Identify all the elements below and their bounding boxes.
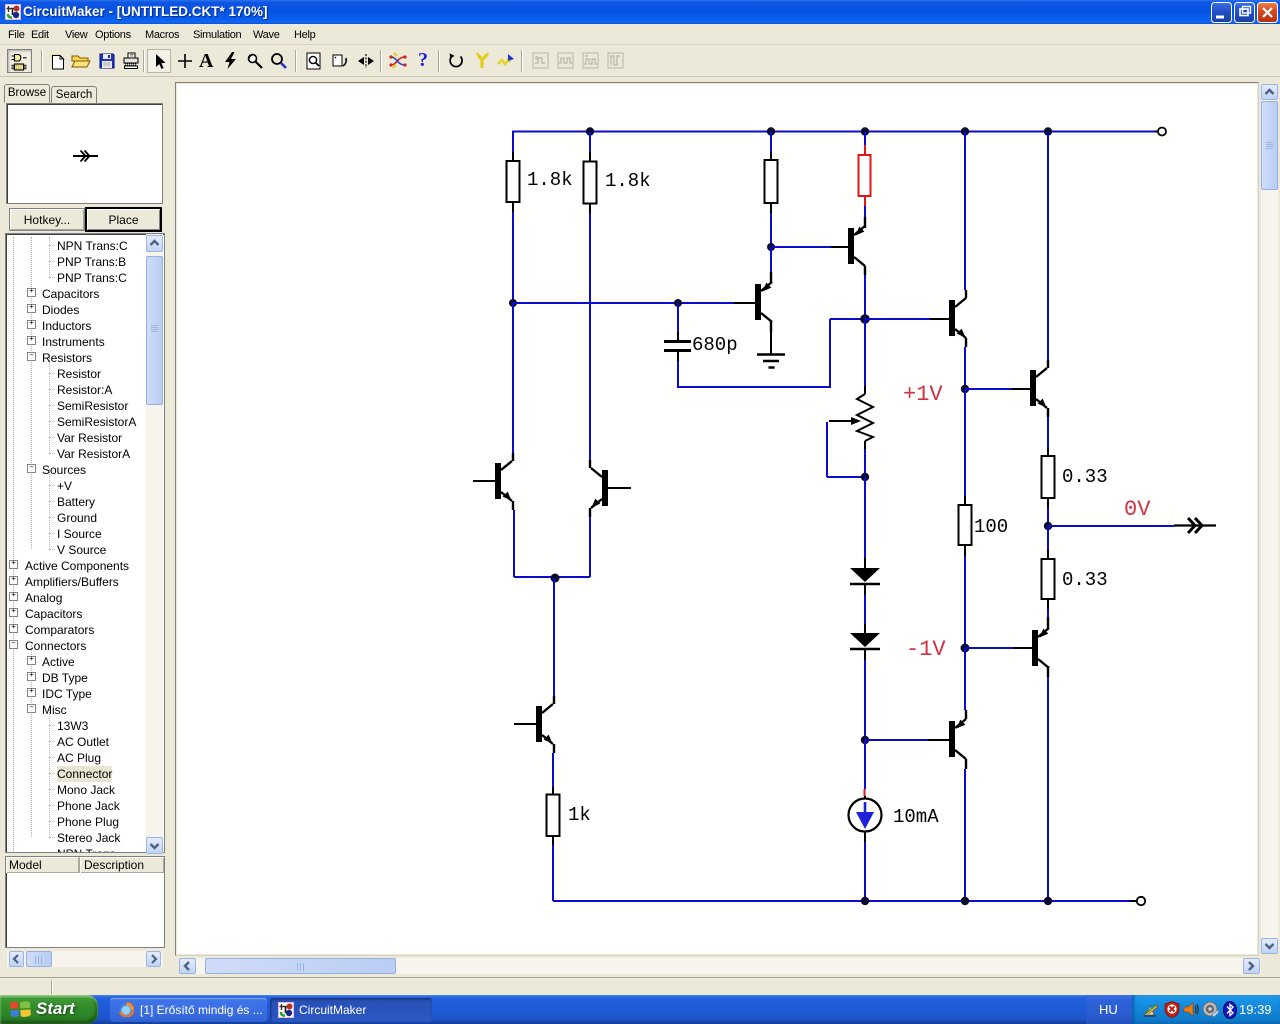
- diode D1: [850, 568, 880, 595]
- node C junction: [860, 314, 870, 324]
- resistor R7 100: [959, 496, 972, 556]
- transistor Q6: [949, 719, 966, 759]
- label I1 10mA: [893, 806, 939, 828]
- wire Q4 emitter to R5: [1047, 408, 1049, 448]
- wire R5 to node F: [1047, 508, 1049, 526]
- wire Q7 emitter to R8: [553, 744, 554, 787]
- transistor Q9: [591, 468, 608, 508]
- resistor R4 selected: [859, 145, 871, 206]
- transistor Q5: [1032, 617, 1049, 668]
- terminal T1 top right: [1155, 128, 1166, 136]
- node bottom rail junctions: [861, 897, 1052, 905]
- wire R6 to Q5 emitter: [1047, 609, 1049, 618]
- node I junction: [861, 736, 869, 744]
- label 0V: [1124, 497, 1151, 522]
- node F junction output: [1044, 522, 1052, 530]
- wire top power rail: [513, 131, 1155, 133]
- wire Q9 collector pin: [589, 460, 591, 468]
- connector J1 output 0V: [1174, 518, 1216, 533]
- wire Q7 base stub: [514, 723, 536, 725]
- wire rail to R2: [589, 132, 591, 153]
- canvas v scrollbar: [1261, 84, 1278, 954]
- wire rail to R1: [512, 131, 514, 153]
- label R5 0.33: [1062, 466, 1108, 488]
- wire Q5 collector down: [1047, 666, 1049, 901]
- wire node G to Q5 base: [965, 647, 1032, 649]
- wire Q1 emitter to node B: [770, 247, 772, 283]
- svg-text:0.33: 0.33: [1062, 466, 1108, 488]
- transistor Q2: [848, 217, 865, 266]
- wire R4 to Q2 emitter: [864, 206, 866, 219]
- status bar: [0, 977, 1280, 995]
- resistor R6 0.33: [1042, 550, 1055, 609]
- left panel: [0, 0, 176, 1024]
- svg-text:1k: 1k: [568, 804, 591, 826]
- title bar: [0, 0, 1280, 24]
- transistor Q8: [495, 461, 512, 501]
- svg-text:0V: 0V: [1124, 497, 1151, 522]
- canvas: [175, 82, 1259, 956]
- wire node B to Q2 base: [771, 246, 848, 248]
- wire rail to R3: [770, 132, 772, 153]
- wire Q2 collector to node C: [864, 266, 866, 319]
- wire D1 to D2: [864, 595, 866, 633]
- wire D2 to node I: [864, 660, 866, 740]
- label -1V: [906, 637, 946, 662]
- label R2 1.8k: [605, 170, 651, 192]
- wire R2 down to Q9 collector: [589, 213, 591, 460]
- wire R8 to bottom rail: [552, 845, 554, 901]
- wire R7 to node G: [964, 556, 966, 648]
- wire node F to R6: [1047, 526, 1049, 550]
- node A junction: [509, 299, 517, 307]
- svg-text:-1V: -1V: [906, 637, 946, 662]
- node J junction: [551, 574, 560, 583]
- transistor Q1: [755, 282, 772, 322]
- wire Q8 base stub: [473, 480, 495, 482]
- svg-text:680p: 680p: [692, 334, 738, 356]
- wire node E to Q4 base: [965, 388, 1030, 390]
- capacitor C1 680p: [664, 342, 691, 362]
- label R6 0.33: [1062, 569, 1108, 591]
- wire R1 to node A: [512, 212, 514, 303]
- wire Q9 emitter to node J: [555, 508, 590, 577]
- wire rail to Q3 collector: [965, 132, 966, 299]
- transistor Q4: [1030, 368, 1047, 408]
- node G junction -1V: [961, 644, 970, 653]
- wire rail to Q4 collector: [1047, 132, 1049, 369]
- current source I1 10mA: [849, 799, 882, 832]
- resistor R5 0.33: [1042, 448, 1055, 508]
- wire node J to Q7 collector: [553, 578, 555, 704]
- node D junction: [674, 299, 682, 307]
- svg-text:1.8k: 1.8k: [527, 169, 573, 191]
- wire bottom rail: [553, 900, 1130, 902]
- taskbar: [0, 995, 1280, 1024]
- wire Q8 collector pin: [512, 453, 514, 461]
- wire node C to VR1: [864, 319, 866, 394]
- wire node I to I1: [864, 740, 867, 798]
- wire Q8 emitter to node J: [513, 501, 555, 577]
- wire Q6 collector down: [965, 759, 966, 901]
- wire node E to R7: [964, 389, 966, 496]
- wire node C to Q3 base: [865, 318, 949, 320]
- node E junction +1V: [961, 385, 969, 393]
- label C1 680p: [692, 334, 738, 356]
- wire Q6 emitter to node G: [965, 648, 966, 719]
- ground: [757, 355, 785, 368]
- wire C1 to node C feedback: [677, 319, 865, 388]
- potentiometer VR1: [829, 394, 873, 441]
- wire node A down to Q8 collector: [512, 303, 514, 453]
- wire I1 to bottom rail: [864, 832, 866, 902]
- toolbar: [0, 45, 1280, 77]
- node H junction: [861, 473, 869, 481]
- resistor R2 1.8k: [584, 152, 597, 213]
- canvas h scrollbar: [179, 958, 1261, 974]
- resistor R1 1.8k: [507, 152, 520, 212]
- wire VR1 to node H: [864, 441, 866, 477]
- svg-text:1.8k: 1.8k: [605, 170, 651, 192]
- svg-text:100: 100: [974, 516, 1008, 538]
- label R7 100: [974, 516, 1008, 538]
- svg-text:0.33: 0.33: [1062, 569, 1108, 591]
- wire node H to D1: [864, 477, 866, 568]
- diode D2: [850, 633, 880, 660]
- node B junction: [767, 243, 775, 251]
- label +1V: [903, 382, 943, 407]
- wire R3 to node B: [770, 213, 772, 247]
- transistor Q7: [536, 704, 553, 744]
- svg-text:+1V: +1V: [903, 382, 943, 407]
- wire VR1 wiper: [827, 422, 865, 477]
- wire Q1 collector to ground: [770, 322, 772, 354]
- label R1 1.8k: [527, 169, 573, 191]
- wire node F to connector J1: [1048, 525, 1174, 527]
- transistor Q3: [949, 298, 966, 338]
- wire rail to R4: [864, 132, 866, 146]
- resistor R8 1k: [547, 787, 560, 845]
- label R8 1k: [568, 804, 591, 826]
- svg-text:10mA: 10mA: [893, 806, 939, 828]
- wire node A to Q1 base: [513, 302, 755, 304]
- wire Q3 emitter to node E: [965, 338, 966, 389]
- wire Q9 base stub: [608, 487, 631, 489]
- node top rail junctions: [586, 127, 1052, 135]
- wire node D to C1: [677, 303, 679, 340]
- wire node I to Q6 base: [865, 739, 949, 741]
- resistor R3: [765, 152, 778, 213]
- terminal T2 bottom right: [1130, 897, 1145, 905]
- menu bar: [0, 24, 1280, 45]
